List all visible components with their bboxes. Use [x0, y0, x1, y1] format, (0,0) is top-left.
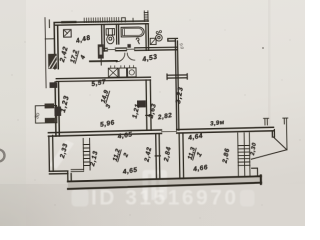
- balcony diagonal right: [273, 137, 286, 150]
- balcony parapet diagonal: [251, 150, 287, 159]
- balcony door jamb block left wall: [50, 82, 58, 88]
- top wall corner dash overdraw: [62, 21, 75, 24]
- balcony right corner drop: [272, 130, 274, 138]
- door jamb block room3: [137, 100, 146, 107]
- door leaf block hall: [98, 44, 104, 58]
- balcony 3o box: [35, 103, 57, 123]
- WC bath divider wall: [116, 24, 118, 44]
- junction block left wall: [54, 106, 61, 116]
- kitchen small square fixture: [150, 38, 156, 44]
- left edge shading: [0, 0, 26, 226]
- bottom band top wall: [48, 127, 273, 136]
- T bar wall stub: [167, 74, 187, 80]
- watermark trailing blob: [240, 190, 255, 207]
- hall stub wall: [90, 60, 117, 62]
- hall right wall: [175, 40, 179, 131]
- paper grain specks: [11, 10, 300, 218]
- room1 window wall hatched: [238, 133, 250, 177]
- svg-text:ID 31516970: ID 31516970: [91, 187, 236, 210]
- balcony parapet hatch block: [48, 54, 57, 69]
- chimney hatched stub top right: [144, 11, 148, 22]
- bottom wall end cap: [260, 175, 262, 183]
- watermark diagonal logo fragment: [49, 140, 74, 169]
- bath door hinge block: [127, 44, 130, 48]
- bottom outer wall: [68, 176, 261, 181]
- balcony top-left inner line: [48, 20, 50, 28]
- kitchen sink circle: [156, 31, 163, 42]
- notch above wall: [122, 18, 126, 22]
- bathtub: [121, 27, 144, 37]
- WC left wall: [102, 24, 105, 51]
- left outer wall lower: [49, 135, 53, 171]
- tiny speck: [262, 47, 264, 49]
- bath door arc: [127, 53, 135, 60]
- window hatch ticks above top wall: [84, 17, 119, 22]
- corner dark overlay: [0, 120, 170, 226]
- fold line right: [268, 0, 271, 127]
- bath right wall: [146, 24, 149, 51]
- wc door arc: [116, 53, 125, 62]
- hall wall top stub: [168, 38, 178, 41]
- bottom wall right riser: [252, 168, 258, 177]
- left outer wall upper: [54, 22, 59, 136]
- toilet: [106, 29, 115, 44]
- bottom scan shadow band: [0, 184, 305, 226]
- leaf tick: [100, 59, 102, 65]
- balcony cross tick: [45, 38, 54, 40]
- room2 corridor divider: [155, 134, 161, 179]
- wc bath bottom wall: [102, 47, 177, 51]
- room1 left wall: [179, 134, 183, 179]
- balcony guard rail top: [264, 118, 269, 125]
- edge stamp arc left: [0, 150, 5, 162]
- top outer wall: [56, 21, 149, 25]
- corridor door threshold: [161, 130, 176, 132]
- watermark logo blob before ID: [72, 189, 89, 207]
- step ledge bottom left: [49, 171, 67, 174]
- step down wall: [68, 171, 72, 182]
- room2 window ledge: [71, 169, 84, 171]
- door thresholds: [107, 48, 135, 50]
- watermark building logo: [143, 170, 168, 200]
- small tick above wall: [132, 18, 134, 21]
- room2 window wall hatched: [83, 138, 90, 170]
- kitchen counter boxes: [108, 65, 136, 77]
- balcony guard stub right: [283, 118, 288, 150]
- room3 top wall: [56, 77, 150, 81]
- bath tap mark: [136, 38, 139, 44]
- room3 right wall: [145, 80, 152, 130]
- balcony top-left outer line: [45, 18, 46, 88]
